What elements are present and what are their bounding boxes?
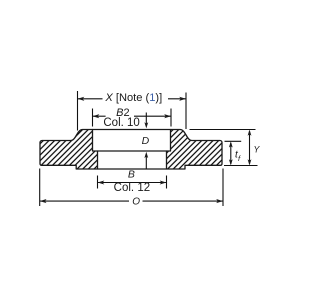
B2 extension line left — [92, 109, 94, 127]
X dimension line right segment with arrowhead — [168, 98, 186, 100]
Y top extension line (hub top) — [190, 129, 256, 131]
B2 extension line right — [170, 109, 172, 127]
Y / tf bottom extension line — [224, 165, 258, 167]
flange right cross-section — [167, 130, 223, 170]
O extension line left — [39, 169, 41, 207]
Y double arrow — [249, 131, 251, 164]
X extension line left — [77, 91, 79, 131]
D depth bottom arrow (up) — [145, 156, 147, 169]
svg-text:D: D — [142, 135, 150, 147]
svg-text:Col. 12: Col. 12 — [114, 182, 150, 194]
B2 dimension line left segment with arrowhead — [93, 115, 106, 117]
tf double arrow — [230, 143, 232, 164]
svg-text:X [Note (1)]: X [Note (1)] — [104, 92, 162, 104]
svg-text:Col. 10: Col. 10 — [103, 117, 139, 129]
far-side edge: bottom face across bore — [98, 168, 167, 170]
B2 dimension line right segment with arrowhead — [134, 115, 171, 117]
svg-text:O: O — [132, 197, 140, 208]
X extension line right — [185, 93, 187, 130]
flange left cross-section — [40, 130, 98, 170]
far-side edge: socket floor — [98, 150, 167, 152]
svg-text:B: B — [128, 169, 135, 181]
B extension line right — [166, 176, 168, 189]
tf top extension line — [225, 140, 242, 142]
D depth top arrow (down) — [145, 113, 147, 125]
svg-text:Y: Y — [253, 144, 260, 154]
X dimension line left segment with arrowhead — [78, 98, 103, 100]
B extension line left — [97, 176, 99, 189]
far-side edge: hub top face across bore — [93, 129, 171, 131]
O extension line right — [222, 169, 224, 207]
svg-text:f: f — [238, 154, 241, 163]
B dimension line with arrowheads — [98, 182, 167, 184]
O dimension line segments with arrowheads — [40, 200, 129, 202]
